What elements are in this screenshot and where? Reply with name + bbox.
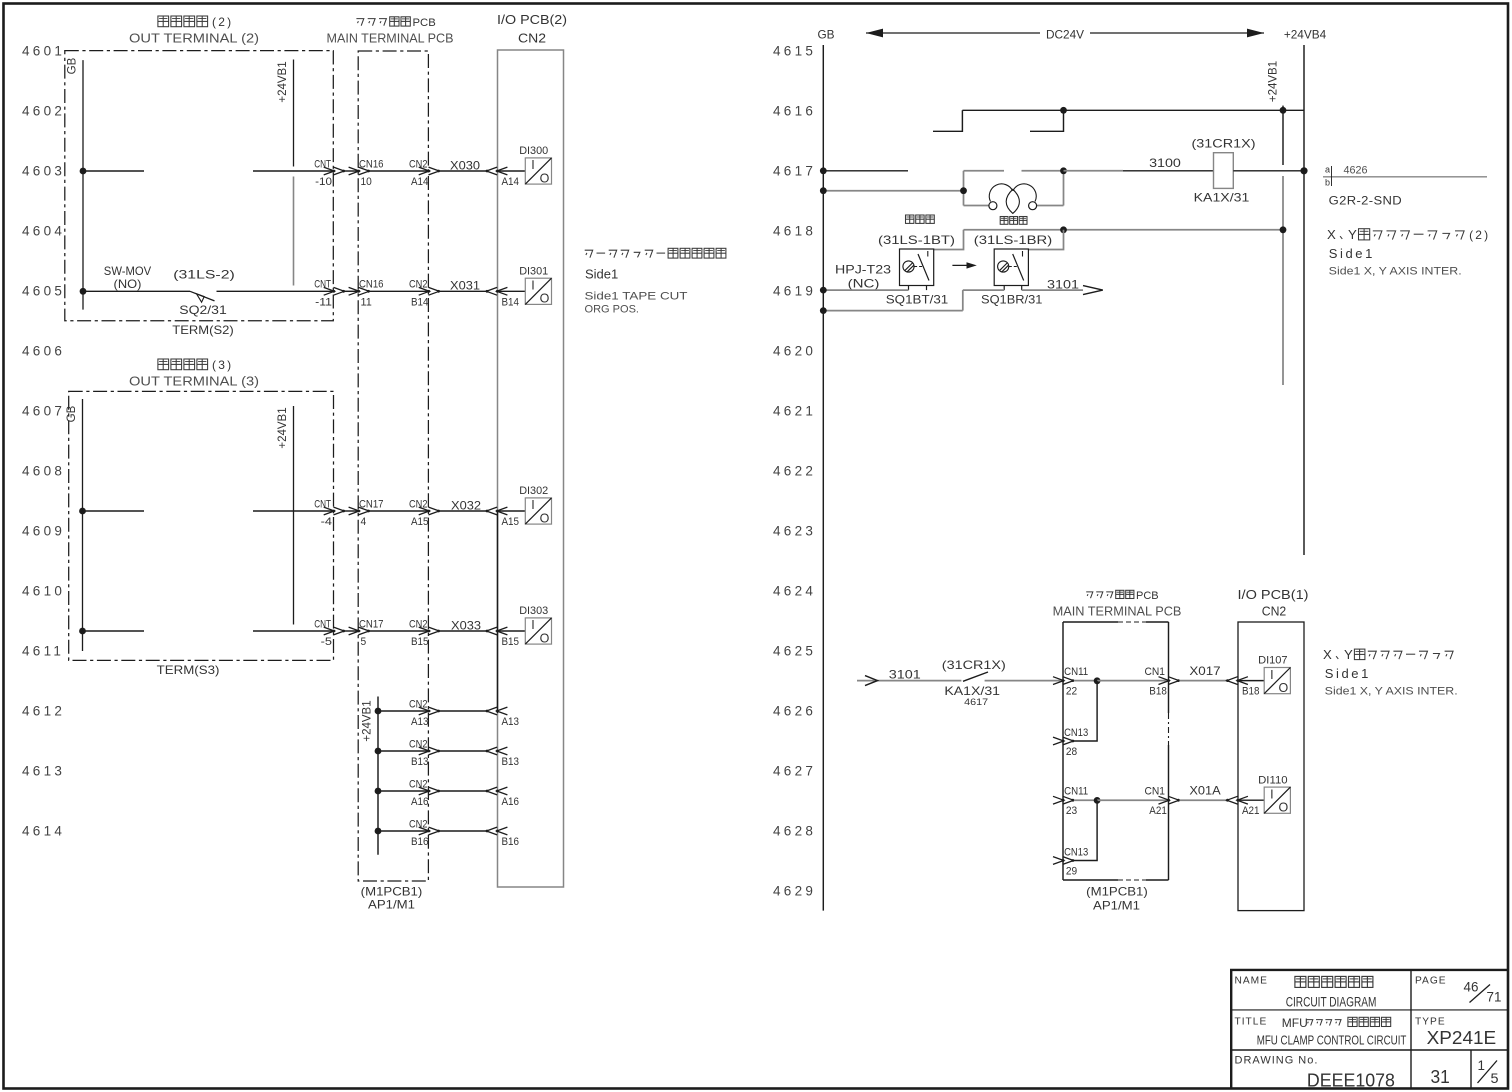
MAIN TERMINAL PCB box right xyxy=(1063,622,1169,880)
connector CN2-B16 crossing xyxy=(419,827,430,835)
svg-text:I/O PCB(1): I/O PCB(1) xyxy=(1238,587,1309,602)
connector CNT-10 crossing 4603 xyxy=(324,167,335,175)
svg-text:G2R-2-SND: G2R-2-SND xyxy=(1329,196,1402,208)
node GB feed left xyxy=(820,187,827,194)
svg-text:+24VB1: +24VB1 xyxy=(277,61,289,102)
svg-text:X01A: X01A xyxy=(1189,784,1220,798)
svg-text:A13: A13 xyxy=(411,716,429,728)
svg-text:X033: X033 xyxy=(451,618,481,632)
svg-text:28: 28 xyxy=(1066,746,1077,758)
svg-text:CN16: CN16 xyxy=(359,158,384,170)
node +24VB1 B16 xyxy=(375,828,382,835)
node X01A branch xyxy=(1094,797,1101,804)
wire X032 CN2 to I/O PCB xyxy=(440,510,487,512)
I/O point symbol DI302 xyxy=(525,498,551,526)
svg-text:4604: 4604 xyxy=(22,224,65,239)
wire 4603 GB to terminal xyxy=(83,170,144,172)
bus wire on I/O PCB(2) edge A15-A13 xyxy=(497,511,499,713)
svg-text:PAGE: PAGE xyxy=(1415,976,1447,987)
svg-text:CNT: CNT xyxy=(314,498,331,510)
wire X033 to CNT xyxy=(253,630,334,632)
wire B14 to DI301 xyxy=(497,290,525,292)
connector A15 into I/O PCB(2) xyxy=(486,507,497,515)
svg-text:DI107: DI107 xyxy=(1258,655,1288,667)
svg-text:4628: 4628 xyxy=(773,824,816,839)
node return GB xyxy=(820,307,827,314)
wire 4619 GB to SQ1BT xyxy=(823,289,908,291)
note tape cutter org pos japanese xyxy=(585,248,726,258)
svg-text:4602: 4602 xyxy=(22,104,65,119)
svg-text:I/O PCB(2): I/O PCB(2) xyxy=(497,12,567,27)
connector A14 into I/O PCB(2) xyxy=(486,167,497,175)
+24VB1 line (OUT TERMINAL 3) xyxy=(293,406,295,625)
node X032 on GB bus xyxy=(79,508,86,515)
node +24VB1 A16 xyxy=(375,788,382,795)
svg-text:4616: 4616 xyxy=(773,104,816,119)
I/O point symbol DI107 xyxy=(1264,668,1290,696)
svg-text:GB: GB xyxy=(817,28,834,42)
svg-text:GB: GB xyxy=(67,57,79,74)
svg-text:B14: B14 xyxy=(502,296,520,308)
svg-text:DI301: DI301 xyxy=(519,265,548,277)
wire B15 to DI303 xyxy=(497,630,525,632)
svg-text:4626: 4626 xyxy=(773,704,816,719)
svg-text:4617: 4617 xyxy=(964,697,988,707)
wire X017 to CN1 xyxy=(1097,680,1169,682)
wire 4605 CN2 to I/O PCB xyxy=(440,290,487,292)
svg-text:DI302: DI302 xyxy=(519,485,548,497)
wire 4618 xyxy=(964,229,1284,231)
svg-text:(M1PCB1): (M1PCB1) xyxy=(1086,885,1148,899)
svg-text:(31LS-1BR): (31LS-1BR) xyxy=(974,233,1052,247)
svg-text:X032: X032 xyxy=(451,498,481,512)
svg-text:4612: 4612 xyxy=(22,704,65,719)
wire X033 CN2 to I/O PCB xyxy=(440,630,487,632)
svg-text:-5: -5 xyxy=(321,636,332,648)
arrow 3101 output xyxy=(1083,286,1103,295)
limit switch SQ2/31 (31LS-2) NO contact xyxy=(190,291,215,302)
svg-text:SQ2/31: SQ2/31 xyxy=(179,303,227,317)
connector CN2-A15 crossing xyxy=(419,507,430,515)
arrow between sensors xyxy=(952,262,976,268)
svg-text:A13: A13 xyxy=(502,716,520,728)
MAIN TERMINAL PCB dash-dot box left xyxy=(358,51,428,881)
+24VB1 bus line (main terminal pcb) xyxy=(377,697,379,855)
node 4619 GB xyxy=(820,287,827,294)
svg-text:3101: 3101 xyxy=(889,668,921,682)
svg-text:B15: B15 xyxy=(411,636,429,648)
svg-text:B18: B18 xyxy=(1149,686,1167,698)
svg-text:4629: 4629 xyxy=(773,884,816,899)
connector CNT-4 crossing xyxy=(324,507,335,515)
svg-text:X: X xyxy=(1323,647,1332,662)
connector CN13-28 crossing xyxy=(1053,737,1064,745)
node GB feed right xyxy=(960,187,967,194)
svg-text:O: O xyxy=(1279,801,1289,815)
drop 4618 to transmitter xyxy=(933,230,963,250)
connector CN2-A13 crossing xyxy=(419,707,430,715)
svg-text:4607: 4607 xyxy=(22,404,65,419)
node X033 on GB bus xyxy=(79,628,86,635)
pin SQ1BT right xyxy=(926,286,928,291)
+24VB4 bus line xyxy=(1303,45,1305,555)
node 4617 GB xyxy=(820,167,827,174)
title block frame xyxy=(1230,970,1508,1089)
wire A14 to DI300 xyxy=(497,170,525,172)
node 4616 +24VB1 xyxy=(1280,107,1287,114)
GB bus line (OUT TERMINAL 2) xyxy=(82,60,84,310)
label 1/5 xyxy=(1478,1058,1499,1086)
wire A15 to DI302 xyxy=(497,510,525,512)
node 4617 +24VB4 xyxy=(1300,167,1307,174)
connector A13 into I/O PCB(2) xyxy=(486,707,497,715)
svg-text:A14: A14 xyxy=(411,176,429,188)
svg-text:I: I xyxy=(1270,787,1273,801)
svg-text:CN2: CN2 xyxy=(409,158,428,170)
svg-text:O: O xyxy=(540,171,550,185)
svg-text:B13: B13 xyxy=(411,756,429,768)
svg-text:CN2: CN2 xyxy=(409,618,428,630)
svg-text:Side1: Side1 xyxy=(585,267,618,282)
svg-text:B15: B15 xyxy=(502,636,520,648)
svg-text:DRAWING No.: DRAWING No. xyxy=(1235,1055,1319,1067)
svg-text:X017: X017 xyxy=(1189,664,1220,678)
connector CNT-11 crossing 4605 xyxy=(324,287,335,295)
connector CN2-A16 crossing xyxy=(419,787,430,795)
svg-text:a: a xyxy=(1325,165,1330,175)
svg-text:4624: 4624 xyxy=(773,584,816,599)
branch to CN13-29 xyxy=(1074,800,1097,860)
label transmitter (toukouki) xyxy=(906,215,935,223)
line number column left (4601-4614) xyxy=(22,44,65,839)
svg-text:DC24V: DC24V xyxy=(1046,28,1084,42)
pin SQ1BR left xyxy=(1003,286,1005,291)
connector B18 into I/O PCB(1) xyxy=(1227,677,1238,685)
wire A16 to CN2 xyxy=(378,790,429,792)
svg-text:22: 22 xyxy=(1066,686,1077,698)
wire B18 to DI107 xyxy=(1238,680,1264,682)
svg-text:+24VB4: +24VB4 xyxy=(1284,28,1327,42)
wire 4605 CNT to CN16 xyxy=(344,290,359,292)
connector CN11-22 crossing xyxy=(1053,677,1064,685)
I/O point symbol DI303 xyxy=(525,618,551,646)
svg-text:10: 10 xyxy=(361,176,372,188)
svg-text:4609: 4609 xyxy=(22,524,65,539)
svg-text:Side1: Side1 xyxy=(1329,246,1375,261)
svg-text:4621: 4621 xyxy=(773,404,816,419)
I/O point symbol DI301 xyxy=(525,278,551,306)
svg-text:CN1: CN1 xyxy=(1145,666,1166,678)
svg-text:4620: 4620 xyxy=(773,344,816,359)
+24VB1 line (OUT TERMINAL 2) xyxy=(293,60,295,167)
svg-text:CN2: CN2 xyxy=(518,30,546,45)
wire X032 CNT to CN17 xyxy=(344,510,359,512)
svg-text:5: 5 xyxy=(1491,1071,1499,1086)
connector A16 into I/O PCB(2) xyxy=(486,787,497,795)
node X017 branch xyxy=(1094,677,1101,684)
relay contact KA1X/31 (31CR1X) xyxy=(963,672,988,681)
wire B16 to I/O PCB xyxy=(440,830,487,832)
svg-text:29: 29 xyxy=(1066,866,1077,878)
return riser xyxy=(962,290,964,311)
svg-text:(31LS-1BT): (31LS-1BT) xyxy=(878,233,955,247)
node 4617 receiver xyxy=(1060,167,1067,174)
svg-text:4606: 4606 xyxy=(22,344,65,359)
svg-text:(3): (3) xyxy=(212,358,233,372)
pin SQ1BT left xyxy=(908,286,910,291)
connector B13 into I/O PCB(2) xyxy=(486,747,497,755)
connector CN2-A14 crossing 4603 xyxy=(419,167,430,175)
svg-text:4605: 4605 xyxy=(22,284,65,299)
svg-text:4625: 4625 xyxy=(773,644,816,659)
svg-text:SQ1BR/31: SQ1BR/31 xyxy=(981,292,1042,306)
svg-text:MFU CLAMP CONTROL CIRCUIT: MFU CLAMP CONTROL CIRCUIT xyxy=(1257,1033,1407,1048)
wire 3100 to coil xyxy=(1064,170,1124,172)
svg-text:PCB: PCB xyxy=(1136,590,1159,602)
svg-text:CN2: CN2 xyxy=(409,498,428,510)
wire X032 GB to terminal xyxy=(83,510,145,512)
svg-text:CN11: CN11 xyxy=(1064,786,1088,798)
arrow 3101 input xyxy=(865,676,878,686)
+24VB1 line right lower xyxy=(1282,176,1284,385)
wire A21 to DI110 xyxy=(1238,799,1264,801)
I/O PCB(1) box xyxy=(1238,622,1304,911)
svg-text:A21: A21 xyxy=(1149,805,1167,817)
node 4605 on GB bus xyxy=(80,288,87,295)
wire 4616 step jog right xyxy=(1030,110,1064,131)
svg-text:TITLE: TITLE xyxy=(1235,1017,1268,1028)
svg-text:4623: 4623 xyxy=(773,524,816,539)
svg-text:SW-MOV: SW-MOV xyxy=(104,264,152,278)
connector CN13-29 crossing xyxy=(1053,857,1064,865)
svg-text:GB: GB xyxy=(66,405,78,422)
wire 4616 step jog left xyxy=(933,110,962,131)
svg-text:A15: A15 xyxy=(502,516,520,528)
svg-text:Side1: Side1 xyxy=(1325,666,1371,681)
svg-text:CN17: CN17 xyxy=(359,498,384,510)
svg-text:CN13: CN13 xyxy=(1064,847,1088,859)
connector CN11-23 crossing xyxy=(1053,796,1064,804)
GB bus line (OUT TERMINAL 3) xyxy=(82,399,84,651)
label page number 46/71 xyxy=(1464,980,1502,1005)
svg-text:I: I xyxy=(531,158,534,172)
connector B14 into I/O PCB(2) xyxy=(486,287,497,295)
svg-text:PCB: PCB xyxy=(413,17,436,29)
wire riser to SQ1BR xyxy=(963,289,1004,291)
svg-text:A16: A16 xyxy=(502,796,520,808)
svg-text:MAIN TERMINAL PCB: MAIN TERMINAL PCB xyxy=(327,30,454,45)
connector B15 into I/O PCB(2) xyxy=(486,627,497,635)
wire contact to CN11 xyxy=(985,680,1064,682)
svg-text:CIRCUIT DIAGRAM: CIRCUIT DIAGRAM xyxy=(1286,995,1377,1010)
svg-text:KA1X/31: KA1X/31 xyxy=(944,684,1000,698)
svg-text:O: O xyxy=(540,511,550,525)
svg-text:CNT: CNT xyxy=(314,158,331,170)
svg-text:3101: 3101 xyxy=(1047,278,1079,292)
wire CN1-A21 to I/O PCB(1) xyxy=(1180,799,1227,801)
svg-text:TYPE: TYPE xyxy=(1415,1017,1446,1028)
svg-text:+24VB1: +24VB1 xyxy=(362,700,374,741)
svg-text:B16: B16 xyxy=(502,836,520,848)
wire 4603 to CNT connector xyxy=(253,170,334,172)
svg-text:23: 23 xyxy=(1066,805,1077,817)
svg-text:O: O xyxy=(1279,681,1289,695)
svg-text:(2): (2) xyxy=(212,15,233,29)
wire X033 CN17 to CN2 xyxy=(369,630,429,632)
svg-text:SQ1BT/31: SQ1BT/31 xyxy=(886,292,949,306)
svg-text:1: 1 xyxy=(1478,1058,1485,1073)
svg-text:CNT: CNT xyxy=(314,618,331,630)
svg-text:HPJ-T23: HPJ-T23 xyxy=(835,263,892,277)
wire A13 to CN2 xyxy=(378,710,429,712)
svg-text:4627: 4627 xyxy=(773,764,816,779)
DC24V dimension arrow xyxy=(866,29,1264,38)
svg-text:(2): (2) xyxy=(1469,228,1490,242)
svg-text:(31LS-2): (31LS-2) xyxy=(173,267,235,281)
connector B16 into I/O PCB(2) xyxy=(486,827,497,835)
svg-text:DEEE1078: DEEE1078 xyxy=(1307,1070,1395,1091)
svg-text:4617: 4617 xyxy=(773,164,816,179)
svg-text:X031: X031 xyxy=(450,279,480,293)
node 4618 receiver drop xyxy=(1060,226,1067,233)
svg-text:Side1 TAPE CUT: Side1 TAPE CUT xyxy=(585,291,689,303)
svg-text:-10: -10 xyxy=(315,176,332,188)
reference tick xyxy=(1331,166,1333,186)
svg-text:OUT TERMINAL (2): OUT TERMINAL (2) xyxy=(129,30,259,45)
svg-text:31: 31 xyxy=(1431,1066,1450,1087)
label receiver (jyukouki) xyxy=(1000,217,1027,225)
connector CN17-4 crossing xyxy=(349,507,360,515)
wire 4605 switch to CNT xyxy=(217,290,335,292)
relay coil 31CR1X xyxy=(1214,153,1234,189)
branch to CN13-28 xyxy=(1074,681,1097,741)
svg-text:I: I xyxy=(1270,668,1273,682)
I/O PCB(2) box xyxy=(498,50,564,887)
GB feed to receiver xyxy=(823,190,963,192)
photo sensor loop left riser xyxy=(963,171,965,206)
svg-text:A21: A21 xyxy=(1242,805,1260,817)
svg-text:AP1/M1: AP1/M1 xyxy=(368,898,415,912)
svg-text:CNT: CNT xyxy=(314,279,331,291)
svg-text:4615: 4615 xyxy=(773,44,816,59)
wire X033 CNT to CN17 xyxy=(344,630,359,632)
svg-text:ORG POS.: ORG POS. xyxy=(585,304,640,316)
svg-text:CN11: CN11 xyxy=(1064,666,1088,678)
title japanese (circuit diagram) xyxy=(1295,976,1373,987)
node +24VB1 A13 xyxy=(375,708,382,715)
svg-text:O: O xyxy=(540,292,550,306)
wire CN11-23 to CN1 xyxy=(1074,799,1097,801)
wire B13 to CN2 xyxy=(378,750,429,752)
svg-text:46: 46 xyxy=(1464,980,1479,995)
svg-text:CN13: CN13 xyxy=(1064,727,1088,739)
wire 4605 GB to switch xyxy=(83,290,190,292)
svg-text:AP1/M1: AP1/M1 xyxy=(1093,899,1140,913)
I/O point symbol DI300 xyxy=(525,158,551,186)
svg-text:4614: 4614 xyxy=(22,824,65,839)
receiver coil symbol xyxy=(964,184,1064,214)
wire SQ1BR output 3101 xyxy=(1022,289,1083,291)
svg-text:I: I xyxy=(531,498,534,512)
svg-text:B18: B18 xyxy=(1242,686,1260,698)
svg-text:B16: B16 xyxy=(411,836,429,848)
connector CN16-10 crossing 4603 xyxy=(349,167,360,175)
svg-text:3100: 3100 xyxy=(1149,156,1181,170)
svg-text:Y: Y xyxy=(1348,227,1357,242)
OUT TERMINAL (3) dash-dot box xyxy=(69,391,334,660)
line number column right (4615-4629) xyxy=(773,44,816,899)
wire 4603 CN16 to CN2 xyxy=(369,170,429,172)
wire 4603 CN2 to I/O PCB xyxy=(440,170,487,172)
wire X032 to CNT xyxy=(253,510,334,512)
node 4618 +24VB1 xyxy=(1280,226,1287,233)
connector CN17-5 crossing xyxy=(349,627,360,635)
wire 4603 CNT to CN16 xyxy=(344,170,359,172)
+24VB1 line right upper xyxy=(1282,106,1284,165)
svg-text:CN16: CN16 xyxy=(359,279,384,291)
connector CN2-B13 crossing xyxy=(419,747,430,755)
svg-text:CN2: CN2 xyxy=(1262,604,1287,619)
svg-text:Side1 X, Y AXIS INTER.: Side1 X, Y AXIS INTER. xyxy=(1325,686,1458,698)
connector CN2-B14 crossing 4605 xyxy=(419,287,430,295)
svg-text:b: b xyxy=(1325,178,1330,188)
svg-text:B14: B14 xyxy=(411,296,429,308)
svg-text:B13: B13 xyxy=(502,756,520,768)
wire CN1 to I/O PCB(1) xyxy=(1180,680,1227,682)
svg-text:OUT TERMINAL (3): OUT TERMINAL (3) xyxy=(129,373,259,388)
node 4616 jog xyxy=(1060,107,1067,114)
connector CN1-A21 crossing xyxy=(1159,796,1170,804)
svg-text:-11: -11 xyxy=(315,296,332,308)
svg-text:DI300: DI300 xyxy=(519,145,548,157)
header MAIN TERMINAL PCB (1) japanese xyxy=(1086,590,1134,598)
header OUT TERMINAL (3) japanese xyxy=(158,359,208,370)
svg-text:DI110: DI110 xyxy=(1258,774,1288,786)
svg-text:DI303: DI303 xyxy=(519,605,548,617)
photoelectric sensor SQ1BT/31 (transmitter) xyxy=(900,249,934,286)
connector A21 into I/O PCB(1) xyxy=(1227,796,1238,804)
svg-text:A14: A14 xyxy=(502,176,520,188)
wire CN11 to CN1 xyxy=(1074,680,1097,682)
wire coil to +24VB4 xyxy=(1233,170,1304,172)
wire X033 GB to terminal xyxy=(83,630,145,632)
svg-text:4: 4 xyxy=(361,516,367,528)
wire X032 CN17 to CN2 xyxy=(369,510,429,512)
svg-text:4611: 4611 xyxy=(22,644,64,659)
svg-text:4608: 4608 xyxy=(22,464,65,479)
svg-text:4603: 4603 xyxy=(22,164,65,179)
reference line 4626 xyxy=(1323,176,1487,178)
svg-text:NAME: NAME xyxy=(1235,976,1268,987)
return wire GB lower xyxy=(823,310,963,312)
GB bus line right xyxy=(822,45,824,911)
svg-text:CN2: CN2 xyxy=(409,279,428,291)
svg-text:4619: 4619 xyxy=(773,284,816,299)
wire 4605 CN16 to CN2 xyxy=(369,290,429,292)
wire X01A to CN1 xyxy=(1097,799,1169,801)
svg-text:CN2: CN2 xyxy=(409,698,428,710)
svg-text:(31CR1X): (31CR1X) xyxy=(1192,137,1256,151)
svg-text:X030: X030 xyxy=(450,158,480,172)
header MAIN TERMINAL PCB japanese xyxy=(356,17,410,26)
svg-text:A16: A16 xyxy=(411,796,429,808)
svg-text:4613: 4613 xyxy=(22,764,65,779)
svg-text:-4: -4 xyxy=(321,516,332,528)
photoelectric sensor SQ1BR/31 (receiver) xyxy=(994,249,1028,286)
connector CNT-5 crossing xyxy=(324,627,335,635)
svg-text:4622: 4622 xyxy=(773,464,816,479)
svg-text:4601: 4601 xyxy=(22,44,65,59)
